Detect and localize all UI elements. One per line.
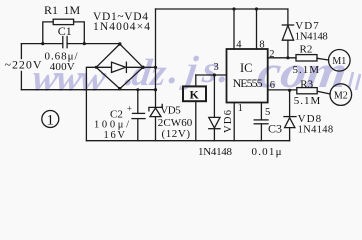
- wire: bottom ground rail: [86, 140, 289, 142]
- wire: pin6 run to M2: [268, 89, 297, 91]
- resistor R1 stubs: [43, 22, 53, 44]
- svg-text:16V: 16V: [104, 130, 126, 141]
- wire: pin3 to K and VD6: [196, 74, 227, 76]
- svg-text:400V: 400V: [50, 61, 75, 73]
- svg-text:2: 2: [269, 49, 274, 60]
- wire: right vertex to riser: [143, 66, 156, 68]
- wire: pin4 riser: [233, 9, 235, 49]
- wire: pin8 riser: [256, 9, 258, 49]
- resistor R3 body: [297, 88, 317, 94]
- diode VD7: [287, 9, 289, 25]
- diode VD6: [213, 75, 215, 117]
- svg-text:3: 3: [214, 62, 219, 73]
- svg-text:C3: C3: [268, 122, 282, 136]
- wire: pin1 to ground: [233, 103, 235, 141]
- svg-text:1N4148: 1N4148: [198, 146, 233, 158]
- svg-text:5.1M: 5.1M: [293, 64, 320, 76]
- diode VD8: [289, 90, 291, 116]
- wire: pin2 run to M1: [268, 57, 296, 59]
- svg-text:0.01μ: 0.01μ: [252, 146, 282, 158]
- svg-text:R2: R2: [300, 43, 313, 55]
- wire: bridge left vertex to ground riser: [86, 67, 96, 140]
- svg-text:6: 6: [270, 80, 275, 91]
- svg-text:R3: R3: [300, 79, 313, 91]
- svg-text:M2: M2: [334, 90, 348, 101]
- svg-text:IC: IC: [240, 61, 253, 75]
- svg-text:NE555: NE555: [233, 76, 263, 90]
- svg-text:R1: R1: [44, 3, 58, 17]
- svg-text:dz: dz: [129, 52, 169, 94]
- wire: bridge + riser (top rail down to right vertex, then to zener): [155, 9, 157, 107]
- wire: K to ground: [195, 102, 197, 141]
- svg-text:1: 1: [238, 103, 243, 114]
- svg-text:C1: C1: [58, 24, 72, 38]
- resistor R1 body: [53, 19, 73, 24]
- resistor R2 body: [296, 55, 317, 61]
- paper background: [0, 0, 362, 164]
- svg-text:1: 1: [47, 113, 55, 129]
- svg-text:VD5: VD5: [160, 105, 181, 117]
- bridge inner diode: [96, 66, 111, 68]
- svg-text:VD8: VD8: [298, 113, 322, 125]
- svg-text:~220V: ~220V: [5, 58, 42, 72]
- svg-text:5.1M: 5.1M: [294, 95, 321, 107]
- svg-text:8: 8: [259, 39, 264, 50]
- svg-text:1M: 1M: [64, 3, 81, 17]
- wire: AC neutral horizontal: [21, 89, 155, 91]
- bridge rectifier VD1-VD4 diamond: [96, 44, 143, 89]
- IC NE555 box: [227, 49, 268, 103]
- relay K box: [183, 86, 206, 101]
- svg-text:VD7: VD7: [295, 20, 319, 32]
- svg-text:K: K: [190, 88, 200, 102]
- wire: AC hot top run with C1 break: [21, 43, 62, 45]
- wire: AC left vertical: [20, 44, 22, 90]
- watermark www.dz.js.com: [30, 46, 360, 100]
- junction dots: [41, 7, 291, 92]
- motor M1: [329, 50, 351, 72]
- label backing for ~220V: [3, 59, 42, 71]
- svg-text:1N4148: 1N4148: [295, 32, 328, 43]
- numbered node circle 1: [42, 111, 59, 128]
- svg-text:5: 5: [265, 107, 270, 118]
- svg-text:VD6: VD6: [223, 110, 234, 133]
- svg-text:1N4004×4: 1N4004×4: [93, 21, 150, 33]
- capacitor C1 plates: [62, 37, 64, 48]
- svg-text:M1: M1: [332, 56, 346, 67]
- wire: top +V rail: [156, 8, 288, 10]
- capacitor C2 riser and plates: [137, 90, 139, 113]
- motor M2: [330, 84, 352, 106]
- zener VD5: [150, 108, 161, 117]
- svg-text:(12V): (12V): [162, 128, 191, 140]
- capacitor C3 with pin5: [260, 103, 262, 120]
- svg-text:4: 4: [236, 39, 242, 50]
- svg-text:+: +: [127, 103, 132, 113]
- svg-text:1N4148: 1N4148: [298, 124, 334, 135]
